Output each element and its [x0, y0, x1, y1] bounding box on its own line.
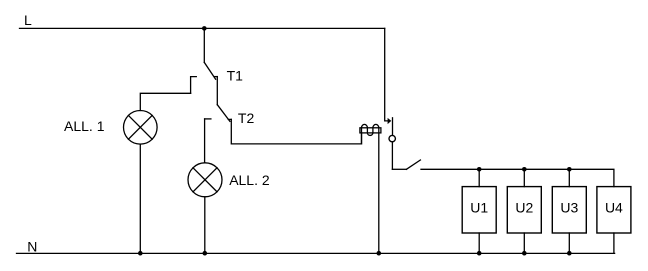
wire lamp ALL.2 to N: [204, 197, 206, 253]
svg-text:U4: U4: [605, 200, 623, 216]
wire lamp ALL.1 to N: [139, 144, 141, 253]
wire T1 left contact to lamp ALL.1: [140, 93, 190, 110]
svg-text:N: N: [27, 238, 37, 254]
wire U3 to N: [568, 233, 570, 253]
switch T1 left contact: [191, 77, 197, 94]
wire circle to contact pivot: [391, 142, 393, 170]
svg-text:T2: T2: [238, 110, 255, 126]
wire T2 right contact to coil left terminal: [231, 119, 361, 143]
lamp ALL.2: [188, 163, 222, 197]
junction dot on L at x=204: [202, 26, 207, 31]
switch T2 right contact tick: [228, 118, 231, 120]
lamp ALL.1: [124, 111, 158, 145]
wire feeder to U2: [523, 169, 525, 186]
junction dot feeder U1: [477, 167, 482, 172]
load U2 box: [507, 187, 541, 233]
wire from L down to T1 common: [203, 28, 205, 62]
coil core rectangle: [360, 128, 381, 133]
timed contact blade (open): [406, 160, 420, 169]
load U3 box: [552, 187, 586, 233]
timed contact input bar: [392, 118, 394, 136]
timer coil K1 (electromagnet winding on core): [360, 124, 381, 253]
wire U4 to N: [613, 233, 615, 253]
load U1 box: [462, 187, 496, 233]
wire U1 to N: [478, 233, 480, 253]
junction dot U1 on N: [477, 251, 482, 256]
svg-text:T1: T1: [227, 68, 244, 84]
wire T2 left contact to lamp ALL.2: [204, 119, 206, 163]
switch T1 blade: [204, 62, 215, 79]
wire from L down to timed-contact actuator: [385, 28, 388, 121]
junction dot feeder U3: [567, 167, 572, 172]
junction dot ALL.2 on N: [203, 251, 208, 256]
load U4 box: [597, 187, 631, 233]
wire N line (neutral rail): [17, 252, 615, 254]
wire feeder to U loads: [421, 169, 614, 186]
wire feeder to U3: [568, 169, 570, 186]
svg-text:U2: U2: [515, 200, 533, 216]
switch T2 blade: [217, 105, 230, 122]
junction dot ALL.1 on N: [138, 251, 143, 256]
junction dot feeder U2: [522, 167, 527, 172]
wire T1 right contact to T2 common: [216, 77, 218, 105]
wire L line (phase rail): [20, 27, 385, 29]
junction dot coil on N: [377, 251, 382, 256]
timed-release circle: [389, 135, 395, 141]
actuator arrow head: [388, 118, 392, 124]
junction dot U3 on N: [567, 251, 572, 256]
svg-text:L: L: [24, 12, 32, 28]
svg-text:U3: U3: [560, 200, 578, 216]
junction dot U2 on N: [522, 251, 527, 256]
switch T2 left contact tick: [205, 118, 211, 120]
coil winding: [362, 124, 379, 253]
svg-text:ALL. 2: ALL. 2: [229, 172, 270, 188]
wire U2 to N: [523, 233, 525, 253]
wire pivot horizontal: [392, 168, 406, 170]
switch T1 right contact tick: [215, 76, 218, 78]
svg-text:ALL. 1: ALL. 1: [64, 118, 105, 134]
svg-text:U1: U1: [470, 200, 488, 216]
wire feeder to U1: [478, 169, 480, 186]
